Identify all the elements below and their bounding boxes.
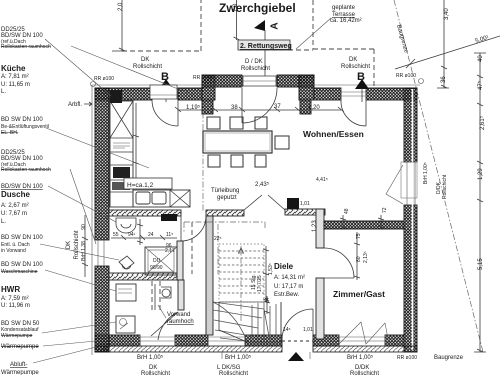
svg-text:Rollokasten raumhoch: Rollokasten raumhoch [1, 167, 51, 173]
bay door lines [242, 79, 277, 83]
door lintel box top-left [150, 85, 177, 99]
canopy dashed top-left [122, 0, 313, 51]
window top wall [341, 88, 366, 100]
line 5,00 [395, 36, 500, 69]
wall zimmer top hatched [324, 221, 404, 229]
chairs top [207, 117, 289, 167]
svg-text:2,13⁵: 2,13⁵ [363, 251, 369, 263]
wall top seg1 [95, 88, 152, 100]
kueche/wohnen dashed boundary [202, 101, 204, 211]
stair lower edge [219, 302, 281, 342]
svg-text:Arbfl.: Arbfl. [68, 102, 82, 108]
wall right leaf split [412, 89, 414, 351]
svg-text:BrH 1,00⁵: BrH 1,00⁵ [137, 354, 164, 361]
svg-text:BrH 1,00⁵: BrH 1,00⁵ [225, 354, 252, 361]
svg-text:U: 11,65 m: U: 11,65 m [1, 82, 30, 88]
right dim chain [474, 53, 486, 352]
svg-text:Küche: Küche [1, 64, 26, 73]
svg-text:BrH 1,00⁵: BrH 1,00⁵ [347, 354, 374, 361]
window bottom Zimmer [339, 335, 385, 346]
wall diele top right [285, 209, 325, 215]
svg-text:Zimmer/Gast: Zimmer/Gast [333, 289, 385, 299]
svg-text:2. Rettungsweg: 2. Rettungsweg [240, 43, 292, 50]
svg-text:BrH 1,38: BrH 1,38 [81, 241, 87, 261]
dusche door leaf and arc [181, 216, 206, 241]
chairs bottom [208, 155, 220, 167]
wall hwr/diele [178, 280, 184, 310]
zwerchgiebel bay strip right [277, 75, 314, 87]
svg-text:4,41⁵: 4,41⁵ [316, 177, 328, 183]
svg-text:DK: DK [141, 57, 149, 63]
dim line 3,40 [437, 0, 449, 88]
svg-text:14⁵: 14⁵ [283, 327, 291, 333]
window bottom Diele [208, 335, 245, 346]
svg-text:BD SW DN 100: BD SW DN 100 [1, 262, 43, 268]
wall left [95, 88, 109, 240]
window right wall [404, 162, 417, 205]
svg-text:L.: L. [1, 219, 6, 225]
dims zimmer door [354, 232, 360, 280]
svg-text:Rollschicht: Rollschicht [442, 174, 448, 199]
svg-text:A: 7,81 m²: A: 7,81 m² [1, 74, 29, 80]
svg-text:BD SW DN 100: BD SW DN 100 [1, 117, 43, 123]
svg-text:Wärmepumpe: Wärmepumpe [1, 344, 39, 350]
H=ca 1,2 box [124, 178, 172, 189]
svg-text:DK: DK [66, 241, 72, 249]
svg-text:raumhoch: raumhoch [167, 319, 194, 325]
wall dusche right [177, 241, 183, 280]
svg-text:Rollschicht: Rollschicht [350, 371, 379, 375]
svg-text:Rollschicht: Rollschicht [141, 371, 170, 375]
rettungsweg box [238, 40, 290, 50]
svg-text:Rollschicht: Rollschicht [241, 66, 270, 72]
stair left wall [206, 216, 213, 335]
svg-text:DK: DK [349, 57, 357, 63]
wall dusche/hwr [109, 273, 177, 280]
svg-text:5,15: 5,15 [478, 258, 484, 270]
bay pier right into room [300, 100, 311, 114]
entrance threshold dashes [282, 340, 313, 342]
svg-text:geputzt: geputzt [217, 195, 237, 201]
flag marker A [254, 20, 265, 31]
door lintel box bay [243, 76, 276, 86]
heat pump box [116, 316, 135, 333]
svg-text:40: 40 [478, 55, 484, 62]
svg-text:Abluft-: Abluft- [10, 362, 27, 368]
window opening symbol right [386, 165, 403, 204]
svg-text:A: 14,31 m²: A: 14,31 m² [274, 275, 305, 281]
tuerleibung splay left [244, 195, 262, 210]
dim line 7,0 [234, 0, 240, 40]
kitchen sink double [136, 192, 150, 204]
svg-text:Vorwand: Vorwand [167, 312, 190, 318]
chair right [275, 136, 289, 149]
svg-text:Rollokasten raumhoch: Rollokasten raumhoch [1, 44, 51, 50]
dims zimmer top [340, 215, 384, 229]
dim line top-left [112, 0, 126, 51]
stair right dim line [263, 246, 269, 302]
svg-text:Diele: Diele [274, 262, 294, 271]
window left wall Dusche [95, 240, 109, 266]
wall kueche/dusche seg2 [206, 210, 244, 216]
wall diele/zimmer upper [316, 209, 324, 248]
top-left door leaf and arc [152, 100, 178, 126]
svg-text:U: 11,96 m: U: 11,96 m [1, 303, 30, 309]
svg-text:47⁵: 47⁵ [477, 80, 484, 90]
svg-text:Rollschicht: Rollschicht [133, 64, 162, 70]
wall top seg2 [178, 88, 202, 100]
wall right [404, 88, 417, 162]
svg-text:BD SW DN 100: BD SW DN 100 [1, 235, 43, 241]
counter dim line [133, 103, 139, 188]
pier dark above diele wall [287, 198, 299, 209]
window opening zigzag Zimmer [339, 322, 389, 344]
svg-text:U: 7,67 m: U: 7,67 m [1, 211, 27, 217]
rollo box corner dark [110, 90, 122, 103]
bay riser right [299, 75, 314, 100]
svg-text:90: 90 [81, 224, 87, 230]
wall top seg3 [314, 88, 341, 100]
stair arrow [239, 248, 244, 253]
svg-text:17,7/25: 17,7/25 [257, 275, 263, 292]
svg-text:ca. 16,42m²: ca. 16,42m² [330, 18, 362, 24]
baugrenze dash-dot line [394, 0, 483, 352]
svg-text:75: 75 [356, 233, 362, 239]
bay riser left [202, 75, 215, 100]
svg-text:2,0: 2,0 [118, 2, 124, 11]
svg-text:D / DK: D / DK [245, 59, 263, 65]
wall top seg4 [366, 88, 417, 100]
svg-text:RR ø100: RR ø100 [193, 75, 213, 81]
wall bottom inner leaf segments [109, 335, 140, 346]
svg-text:24: 24 [148, 232, 154, 238]
svg-text:1,01: 1,01 [303, 327, 313, 333]
counter cells [110, 152, 133, 192]
svg-text:HWR: HWR [1, 285, 20, 294]
door top-left opening [152, 92, 178, 96]
svg-text:Wärmepumpe: Wärmepumpe [1, 370, 39, 375]
shower [145, 247, 177, 275]
washbasin [116, 218, 136, 233]
washer box [116, 284, 136, 301]
left dim line [82, 215, 88, 277]
kitchen bottom row counter [133, 190, 190, 207]
svg-text:7,0: 7,0 [233, 3, 239, 12]
dim 64 stairs [264, 296, 270, 314]
stair winders [213, 302, 281, 342]
window bottom HWR [140, 335, 175, 346]
svg-text:Wohnen/Essen: Wohnen/Essen [303, 129, 364, 139]
svg-text:Rollschicht: Rollschicht [219, 371, 248, 375]
svg-text:1,20: 1,20 [308, 105, 320, 111]
zimmer door leaf and arc [324, 248, 354, 278]
svg-text:3,40: 3,40 [444, 8, 450, 20]
table [203, 131, 272, 153]
dusche dims [111, 235, 177, 240]
svg-text:37: 37 [274, 104, 281, 110]
svg-text:1,01: 1,01 [300, 201, 310, 207]
svg-text:Rollschicht: Rollschicht [74, 230, 80, 259]
bottom triangle marker [288, 352, 304, 361]
svg-text:A: 2,67 m²: A: 2,67 m² [1, 203, 29, 209]
svg-text:94¹: 94¹ [128, 232, 136, 238]
svg-text:Waschmaschine: Waschmaschine [1, 269, 38, 275]
svg-text:Baugrenze: Baugrenze [434, 355, 464, 361]
terrace dashed outline [313, 0, 374, 87]
svg-text:RR ø100: RR ø100 [397, 355, 417, 361]
kitchen counter column [110, 101, 133, 207]
plinth outline offsets [92, 85, 420, 355]
svg-text:36: 36 [441, 76, 447, 83]
stair treads [219, 251, 264, 293]
svg-text:72: 72 [382, 207, 388, 213]
svg-text:U: 17,17 m: U: 17,17 m [274, 284, 303, 290]
svg-text:Türleibung: Türleibung [211, 188, 239, 194]
stair outline dotted [219, 244, 264, 302]
svg-text:DU: DU [153, 258, 161, 264]
svg-text:A: 7,59 m²: A: 7,59 m² [1, 296, 29, 302]
bay pier left into room [202, 100, 213, 114]
stair center line [240, 246, 242, 322]
svg-text:Zwerchgiebel: Zwerchgiebel [219, 1, 296, 15]
svg-text:RR ø100: RR ø100 [94, 76, 114, 82]
counter cell X top [110, 101, 133, 138]
entrance door leaf and arc [282, 309, 313, 340]
svg-text:90/90: 90/90 [150, 265, 163, 271]
dim line top interior [175, 107, 344, 112]
svg-text:Estr.Bew.: Estr.Bew. [274, 292, 299, 298]
svg-text:in Vorwand: in Vorwand [1, 248, 26, 254]
svg-text:EL. BH.: EL. BH. [1, 130, 18, 136]
wall kueche/dusche seg1 [109, 210, 181, 216]
wall diele/zimmer lower [316, 278, 324, 339]
sink marks [113, 143, 130, 148]
wc [119, 256, 134, 269]
zwerchgiebel bay strip left [202, 75, 242, 87]
svg-text:64: 64 [265, 297, 271, 303]
svg-text:11⁵: 11⁵ [166, 232, 173, 238]
hwr door leaf [151, 312, 178, 340]
svg-text:BrH 1,00⁵: BrH 1,00⁵ [423, 162, 429, 184]
svg-text:1,23: 1,23 [312, 220, 318, 232]
svg-text:80: 80 [356, 256, 362, 262]
svg-text:38: 38 [231, 105, 238, 111]
svg-text:48: 48 [344, 208, 350, 214]
svg-text:55: 55 [113, 232, 119, 238]
ceiling opening dashdot [184, 222, 265, 274]
wall bottom outer leaf [95, 346, 282, 352]
svg-text:2,61⁵: 2,61⁵ [479, 115, 486, 130]
vorwand dashed [152, 281, 160, 311]
svg-text:Wärmepumpe: Wärmepumpe [1, 333, 33, 339]
svg-text:1,19⁵: 1,19⁵ [186, 104, 201, 111]
svg-text:L.: L. [1, 89, 6, 95]
svg-text:H=ca.1,2: H=ca.1,2 [127, 182, 154, 189]
svg-text:2,43⁵: 2,43⁵ [255, 181, 270, 188]
svg-text:A: A [270, 22, 281, 29]
tuerleibung splay right [268, 195, 285, 210]
hwr small fixture right [161, 287, 171, 298]
svg-text:1,29: 1,29 [478, 168, 484, 180]
bay door leaf and arc [242, 88, 277, 123]
X box right of sink [170, 190, 190, 207]
stove dark [113, 167, 130, 178]
svg-text:Dusche: Dusche [1, 190, 30, 199]
svg-text:22⁵: 22⁵ [214, 236, 222, 242]
svg-text:Rollschicht: Rollschicht [341, 64, 370, 70]
svg-text:2,17: 2,17 [165, 248, 175, 254]
pier dark at dusche door [161, 214, 177, 221]
svg-text:geplante: geplante [332, 5, 356, 11]
terrace door leaf and arc [341, 100, 366, 126]
bottom-left corner block [95, 335, 109, 352]
